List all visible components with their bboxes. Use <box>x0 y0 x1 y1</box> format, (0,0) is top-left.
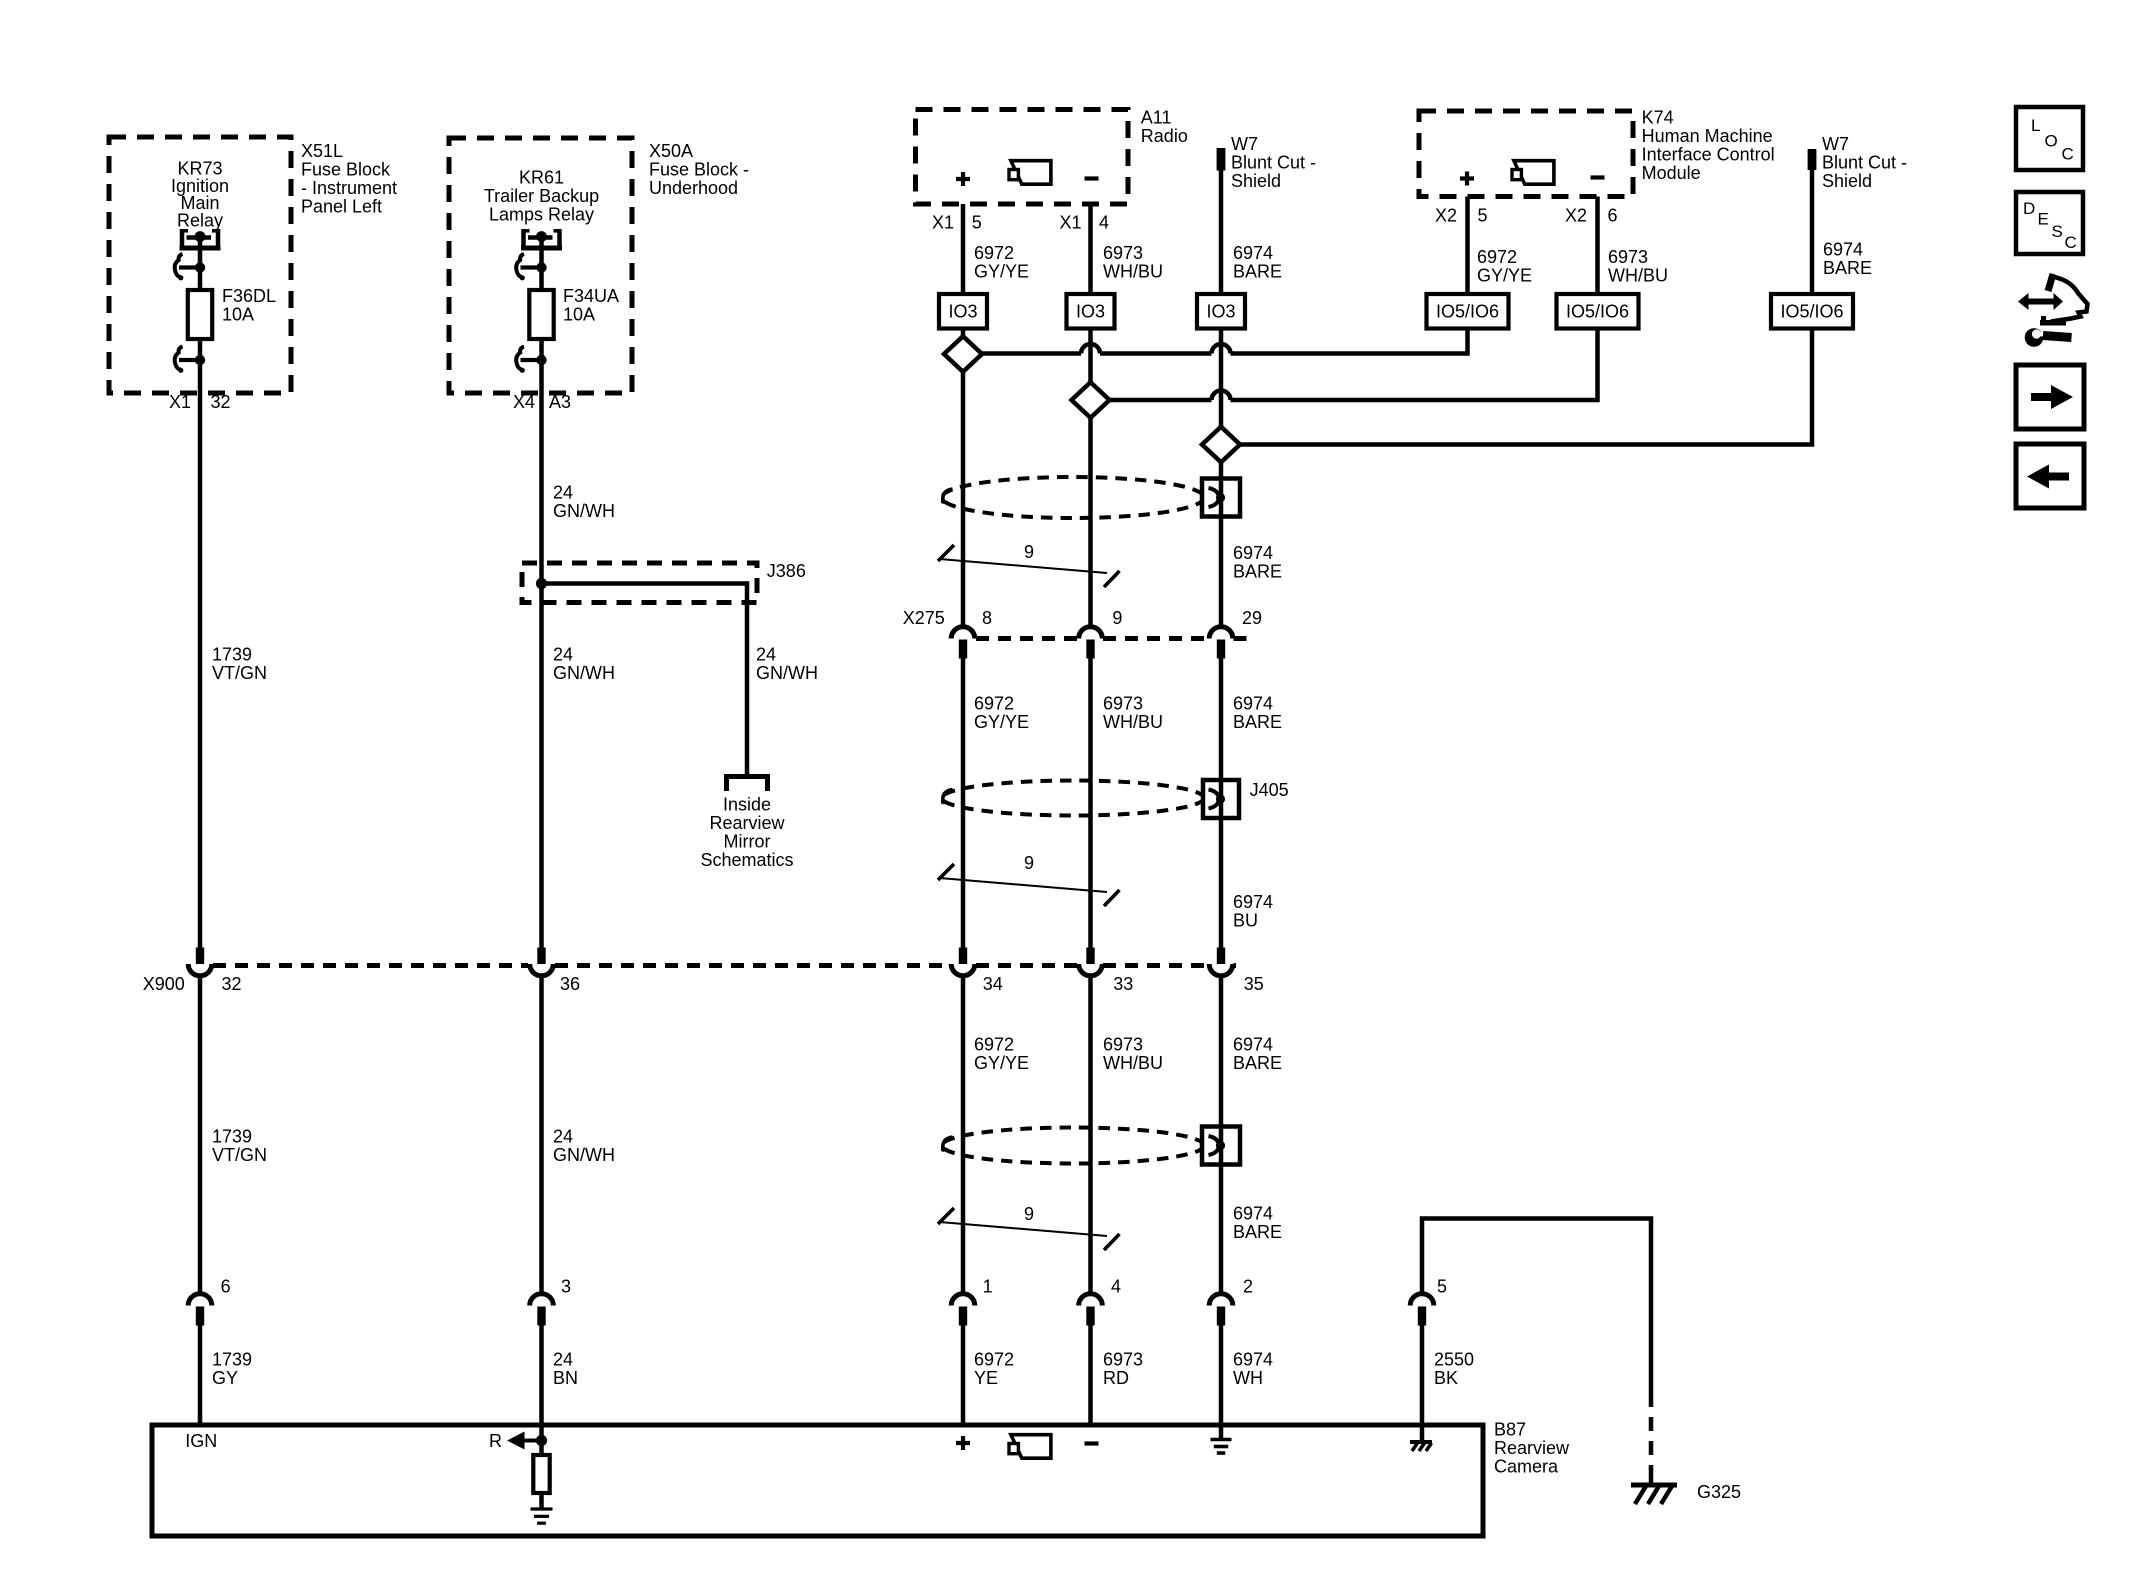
camera icon K74 <box>1512 161 1554 185</box>
svg-text:KR61: KR61 <box>519 168 564 188</box>
svg-text:GN/WH: GN/WH <box>553 501 615 521</box>
svg-text:- Instrument: - Instrument <box>301 178 397 198</box>
net box IO5/IO6 col shield right <box>1771 294 1853 329</box>
component B87 Rearview Camera box <box>152 1420 1570 1537</box>
svg-text:Inside: Inside <box>723 795 771 815</box>
svg-text:9: 9 <box>1024 853 1034 873</box>
svg-text:X2: X2 <box>1565 206 1587 226</box>
svg-text:6973: 6973 <box>1103 694 1143 714</box>
net box IO3 col radio plus <box>939 294 987 329</box>
svg-text:F36DL: F36DL <box>222 286 276 306</box>
svg-text:WH: WH <box>1233 1368 1263 1388</box>
wire relay KR61 to fuse F34UA <box>539 237 544 292</box>
svg-text:8: 8 <box>982 608 992 628</box>
svg-text:X4: X4 <box>513 392 535 412</box>
connector B87 pin 2 <box>1209 1277 1253 1326</box>
svg-text:X275: X275 <box>903 608 945 628</box>
svg-text:Underhood: Underhood <box>649 178 738 198</box>
svg-text:29: 29 <box>1242 608 1262 628</box>
svg-text:6974: 6974 <box>1233 892 1273 912</box>
net box IO3 col radio minus <box>1067 294 1115 329</box>
splice diamond radio minus <box>1072 382 1110 418</box>
pin label X2 5 <box>1435 206 1488 226</box>
fuse F34UA 10A <box>529 286 619 339</box>
svg-text:6973: 6973 <box>1103 1035 1143 1055</box>
connector B87 pin 3 <box>530 1277 571 1326</box>
svg-text:6: 6 <box>1608 206 1618 226</box>
splice diamond radio plus <box>944 336 982 372</box>
svg-text:GY/YE: GY/YE <box>974 1053 1029 1073</box>
svg-text:IO3: IO3 <box>948 302 977 322</box>
terminal clip lower KR61 <box>516 347 547 373</box>
wire bus K74 minus to diamond (with hop) <box>1110 329 1598 401</box>
svg-text:A11: A11 <box>1141 108 1172 128</box>
svg-text:9: 9 <box>1112 608 1122 628</box>
svg-text:6: 6 <box>221 1277 231 1297</box>
svg-text:GN/WH: GN/WH <box>756 663 818 683</box>
shield termination splice J405 <box>1203 780 1289 818</box>
splice J386 dashed box <box>522 561 806 603</box>
icon button DESC <box>2016 192 2083 254</box>
svg-text:Module: Module <box>1642 163 1701 183</box>
svg-text:10A: 10A <box>222 305 254 325</box>
svg-text:6974: 6974 <box>1823 240 1863 260</box>
svg-text:1739: 1739 <box>212 1350 252 1370</box>
terminal clip upper KR61 <box>516 254 547 280</box>
svg-text:X1: X1 <box>169 392 191 412</box>
connector X275 label row <box>903 608 1262 628</box>
svg-text:6972: 6972 <box>974 1350 1014 1370</box>
svg-text:6974: 6974 <box>1233 694 1273 714</box>
svg-text:24: 24 <box>553 1127 573 1147</box>
twist marker 9 upper <box>938 542 1120 587</box>
svg-text:24: 24 <box>756 645 776 665</box>
connector X275 dashed line <box>976 636 1250 641</box>
label IGN input <box>185 1431 217 1451</box>
svg-text:6973: 6973 <box>1103 243 1143 263</box>
svg-text:BARE: BARE <box>1233 262 1282 282</box>
wire 6974 BARE shield left <box>1221 168 1282 295</box>
ground internal camera resistor <box>530 1509 552 1523</box>
svg-text:GY/YE: GY/YE <box>1477 266 1532 286</box>
connector X900 pin 33 <box>1079 948 1103 976</box>
svg-text:6972: 6972 <box>1477 247 1517 267</box>
connector B87 pin 6 <box>188 1277 230 1326</box>
svg-text:VT/GN: VT/GN <box>212 663 267 683</box>
svg-text:Rearview: Rearview <box>709 813 785 833</box>
wire 6974 BU J405 to X900 <box>1221 818 1273 949</box>
svg-text:32: 32 <box>211 392 231 412</box>
wire 2550 BK to B87 ground pin <box>1422 1325 1474 1441</box>
fuse block X51L dashed box <box>109 137 397 393</box>
wire 1739 VT/GN (X51L to X900) <box>200 362 267 949</box>
wire 24 GN/WH (X50A to splice J386) <box>542 362 616 584</box>
wire branch 24 GN/WH to inside rearview mirror <box>542 584 819 778</box>
svg-text:WH/BU: WH/BU <box>1608 266 1668 286</box>
minus terminal K74 <box>1591 175 1605 179</box>
svg-text:A3: A3 <box>549 392 571 412</box>
svg-text:X51L: X51L <box>301 141 343 161</box>
svg-text:W7: W7 <box>1822 134 1849 154</box>
svg-text:5: 5 <box>1437 1277 1447 1297</box>
connector X900 pin 34 <box>951 948 975 976</box>
svg-text:Panel Left: Panel Left <box>301 197 382 217</box>
svg-text:1739: 1739 <box>212 645 252 665</box>
wire 6973 WH/BU K74 minus <box>1598 197 1669 296</box>
net box IO5/IO6 col K74 plus <box>1427 294 1509 329</box>
twisted pair shield ellipse 2 <box>941 781 1204 816</box>
connector X900 pin 35 <box>1209 948 1233 976</box>
plus terminal A11 <box>956 172 970 186</box>
twist marker 9 lower <box>938 1204 1120 1250</box>
fuse block X50A dashed box <box>449 138 749 393</box>
svg-text:BARE: BARE <box>1233 1053 1282 1073</box>
svg-text:6974: 6974 <box>1233 1035 1273 1055</box>
wire 6974 BARE shield right <box>1812 168 1872 295</box>
svg-text:WH/BU: WH/BU <box>1103 712 1163 732</box>
svg-text:IO3: IO3 <box>1076 302 1105 322</box>
component K74 Human Machine Interface Control Module dashed box <box>1419 108 1775 197</box>
svg-text:6974: 6974 <box>1233 1204 1273 1224</box>
component A11 Radio dashed box <box>916 108 1188 205</box>
camera icon A11 <box>1009 161 1051 185</box>
wire hop over col radio minus at bus 1 <box>1081 344 1100 354</box>
svg-text:GY/YE: GY/YE <box>974 262 1029 282</box>
svg-text:Relay: Relay <box>177 210 223 230</box>
svg-text:GN/WH: GN/WH <box>553 663 615 683</box>
svg-text:Blunt Cut -: Blunt Cut - <box>1231 153 1316 173</box>
twisted pair shield ellipse 1 <box>941 477 1204 518</box>
icon harness repair (arrows and wrench) <box>2018 274 2088 347</box>
wire hop over col shield at bus 2 <box>1212 391 1231 401</box>
svg-text:BARE: BARE <box>1233 1222 1282 1242</box>
wire 6974 BARE X275 to splice J405 <box>1221 658 1282 781</box>
svg-text:O: O <box>2045 132 2058 151</box>
wire 6974 BARE X900 to shield block 3 <box>1221 978 1282 1130</box>
svg-text:Fuse Block -: Fuse Block - <box>649 160 749 180</box>
relay KR61 Trailer Backup Lamps Relay <box>484 168 599 249</box>
svg-text:WH/BU: WH/BU <box>1103 262 1163 282</box>
svg-text:6972: 6972 <box>974 243 1014 263</box>
svg-text:Radio: Radio <box>1141 126 1188 146</box>
wire 6974 WH to B87 shield gnd <box>1221 1325 1273 1438</box>
connector B87 pin 5 <box>1410 1277 1447 1326</box>
twisted pair shield ellipse 3 <box>941 1128 1204 1164</box>
svg-text:4: 4 <box>1099 213 1109 233</box>
wire 2550 BK loop to G325 <box>1422 1219 1651 1394</box>
svg-text:BU: BU <box>1233 911 1258 931</box>
svg-text:X1: X1 <box>1059 213 1081 233</box>
svg-text:D: D <box>2023 199 2035 218</box>
wire 6973 WH/BU X900 down <box>1091 978 1164 1295</box>
svg-text:6972: 6972 <box>974 1035 1014 1055</box>
svg-text:Shield: Shield <box>1822 171 1872 191</box>
svg-text:10A: 10A <box>563 305 595 325</box>
svg-text:6974: 6974 <box>1233 1350 1273 1370</box>
pin label X1 5 <box>932 213 982 233</box>
connector X900 label row <box>143 974 1264 994</box>
svg-text:E: E <box>2038 210 2049 229</box>
svg-text:IO5/IO6: IO5/IO6 <box>1566 302 1629 322</box>
twist marker 9 middle <box>938 853 1120 906</box>
ground G325 <box>1631 1468 1741 1504</box>
svg-text:IO5/IO6: IO5/IO6 <box>1436 302 1499 322</box>
svg-text:C: C <box>2062 145 2074 164</box>
svg-text:IGN: IGN <box>185 1431 217 1451</box>
svg-text:4: 4 <box>1111 1277 1121 1297</box>
svg-text:Human Machine: Human Machine <box>1642 126 1773 146</box>
svg-text:S: S <box>2052 222 2063 241</box>
svg-text:F34UA: F34UA <box>563 286 619 306</box>
svg-text:24: 24 <box>553 1350 573 1370</box>
shield termination block 1 <box>1202 479 1240 517</box>
icon button next arrow <box>2016 365 2084 429</box>
svg-text:GN/WH: GN/WH <box>553 1145 615 1165</box>
svg-text:6972: 6972 <box>974 694 1014 714</box>
svg-text:2550: 2550 <box>1434 1350 1474 1370</box>
wire 6972 GY/YE X900 down <box>963 978 1029 1295</box>
terminal clip upper KR73 <box>175 254 206 280</box>
svg-text:3: 3 <box>561 1277 571 1297</box>
svg-text:Interface Control: Interface Control <box>1642 145 1775 165</box>
svg-text:J405: J405 <box>1250 780 1289 800</box>
svg-text:WH/BU: WH/BU <box>1103 1053 1163 1073</box>
wire 6972 GY/YE K74 plus <box>1468 197 1533 296</box>
pin label X1 32 <box>169 392 231 412</box>
svg-text:X2: X2 <box>1435 206 1457 226</box>
minus terminal B87 <box>1085 1441 1099 1445</box>
wire diamond radio plus down to X275 <box>961 372 966 629</box>
wire 6974 BARE block 3 to B87 connector <box>1221 1163 1282 1295</box>
wire 6973 WH/BU X275 to X900 <box>1091 658 1164 949</box>
wire 6972 GY/YE radio plus <box>963 204 1029 295</box>
wire diamond radio minus down to X275 <box>1088 418 1093 629</box>
svg-text:Shield: Shield <box>1231 171 1281 191</box>
svg-text:GY: GY <box>212 1368 238 1388</box>
wire 24 GN/WH X900 to B87 connector <box>542 978 616 1295</box>
svg-text:GY/YE: GY/YE <box>974 712 1029 732</box>
wire shield block 1 to X275 <box>1221 515 1282 628</box>
svg-text:Fuse Block: Fuse Block <box>301 160 391 180</box>
svg-text:IO3: IO3 <box>1206 302 1235 322</box>
net box IO5/IO6 col K74 minus <box>1557 294 1639 329</box>
net box IO3 col shield <box>1197 294 1245 329</box>
svg-text:36: 36 <box>560 974 580 994</box>
wire fuse F34UA to terminal <box>539 339 544 362</box>
wire 24 BN to B87 R input <box>542 1325 579 1441</box>
pin label X2 6 <box>1565 206 1618 226</box>
wire diamond shield down to shield block <box>1219 462 1224 481</box>
plus terminal B87 <box>956 1436 970 1450</box>
svg-text:32: 32 <box>222 974 242 994</box>
svg-text:BARE: BARE <box>1233 562 1282 582</box>
wire fuse F36DL to terminal <box>198 339 203 362</box>
svg-text:Camera: Camera <box>1494 1457 1559 1477</box>
svg-text:6973: 6973 <box>1608 247 1648 267</box>
off-page bracket Inside Rearview Mirror Schematics <box>700 777 793 871</box>
connector X900 dashed line <box>213 963 1236 968</box>
connector X900 pin 32 <box>188 948 212 976</box>
icon button LOC <box>2016 107 2083 170</box>
svg-text:YE: YE <box>974 1368 998 1388</box>
wire 6973 RD to B87 minus <box>1091 1325 1144 1427</box>
wire hop over col shield at bus 1 <box>1212 344 1231 354</box>
connector X900 pin 36 <box>530 948 554 976</box>
svg-text:35: 35 <box>1244 974 1264 994</box>
svg-text:5: 5 <box>1478 206 1488 226</box>
svg-text:Blunt Cut -: Blunt Cut - <box>1822 153 1907 173</box>
fuse F36DL 10A <box>188 286 276 339</box>
icon button back arrow <box>2016 444 2084 508</box>
svg-text:Mirror: Mirror <box>724 832 771 852</box>
wire 1739 VT/GN X900 to B87 connector <box>200 978 267 1295</box>
wire dashed to ground G325 <box>1649 1393 1654 1470</box>
resistor camera pull-down <box>533 1441 549 1510</box>
svg-text:X900: X900 <box>143 974 185 994</box>
svg-text:RD: RD <box>1103 1368 1129 1388</box>
svg-text:34: 34 <box>983 974 1003 994</box>
wire bus K74 plus to diamond (with hops) <box>982 329 1468 354</box>
svg-text:9: 9 <box>1024 542 1034 562</box>
svg-text:G325: G325 <box>1697 1482 1741 1502</box>
pin label X1 4 <box>1059 213 1109 233</box>
svg-text:24: 24 <box>553 645 573 665</box>
svg-text:9: 9 <box>1024 1204 1034 1224</box>
relay KR73 Ignition Main Relay <box>171 159 229 249</box>
svg-text:6974: 6974 <box>1233 543 1273 563</box>
svg-text:1739: 1739 <box>212 1127 252 1147</box>
camera icon B87 <box>1009 1435 1051 1459</box>
blunt cut W7 shield left <box>1217 134 1316 191</box>
svg-text:BK: BK <box>1434 1368 1458 1388</box>
svg-text:Trailer Backup: Trailer Backup <box>484 186 599 206</box>
svg-text:B87: B87 <box>1494 1420 1526 1440</box>
svg-text:K74: K74 <box>1642 108 1674 128</box>
svg-text:L: L <box>2031 116 2040 135</box>
wire 6972 GY/YE X275 to X900 <box>963 658 1029 949</box>
plus terminal K74 <box>1460 172 1474 186</box>
wire IO3 to splice diamond col radio plus <box>961 329 966 338</box>
wire IO3 to splice diamond col shield <box>1219 329 1224 428</box>
wire bus shield right to diamond <box>1240 329 1812 445</box>
svg-text:Rearview: Rearview <box>1494 1438 1570 1458</box>
wire 1739 GY to B87 IGN <box>200 1325 252 1427</box>
svg-text:VT/GN: VT/GN <box>212 1145 267 1165</box>
svg-text:BARE: BARE <box>1823 258 1872 278</box>
node R junction <box>536 1435 547 1446</box>
pin label X4 A3 <box>513 392 571 412</box>
connector X275 pin 29 <box>1209 627 1233 659</box>
terminal clip lower KR73 <box>175 347 206 373</box>
svg-text:BARE: BARE <box>1233 712 1282 732</box>
svg-text:BN: BN <box>553 1368 578 1388</box>
ground internal camera shield <box>1211 1440 1232 1454</box>
svg-text:6974: 6974 <box>1233 243 1273 263</box>
wire 6972 YE to B87 plus <box>963 1325 1014 1427</box>
wire relay KR73 to fuse F36DL <box>198 237 203 292</box>
splice diamond shield <box>1202 427 1240 463</box>
svg-text:5: 5 <box>972 213 982 233</box>
connector B87 pin 4 <box>1079 1277 1121 1326</box>
minus terminal A11 <box>1085 176 1099 180</box>
connector X275 pin 9 <box>1079 627 1103 659</box>
svg-text:W7: W7 <box>1231 134 1258 154</box>
connector B87 pin 1 <box>951 1277 992 1326</box>
node splice J386 junction <box>536 578 547 589</box>
blunt cut W7 shield right <box>1808 134 1907 191</box>
svg-text:X1: X1 <box>932 213 954 233</box>
chassis ground internal camera pin 5 <box>1410 1442 1432 1451</box>
wire 24 GN/WH (J386 to X900) <box>542 584 616 949</box>
svg-text:Lamps Relay: Lamps Relay <box>489 205 594 225</box>
shield termination block 3 <box>1202 1127 1240 1165</box>
svg-text:R: R <box>489 1431 502 1451</box>
svg-text:Schematics: Schematics <box>700 850 793 870</box>
wire 6973 WH/BU radio minus <box>1091 204 1164 295</box>
svg-text:1: 1 <box>983 1277 993 1297</box>
svg-text:IO5/IO6: IO5/IO6 <box>1780 302 1843 322</box>
svg-text:6973: 6973 <box>1103 1350 1143 1370</box>
svg-text:C: C <box>2065 233 2077 252</box>
svg-text:33: 33 <box>1113 974 1133 994</box>
svg-text:J386: J386 <box>767 561 806 581</box>
svg-text:24: 24 <box>553 483 573 503</box>
label R reverse input arrow <box>489 1431 542 1451</box>
svg-text:2: 2 <box>1243 1277 1253 1297</box>
connector X275 pin 8 <box>951 627 975 659</box>
svg-text:X50A: X50A <box>649 141 693 161</box>
wire IO3 to splice diamond col radio minus <box>1088 329 1093 384</box>
